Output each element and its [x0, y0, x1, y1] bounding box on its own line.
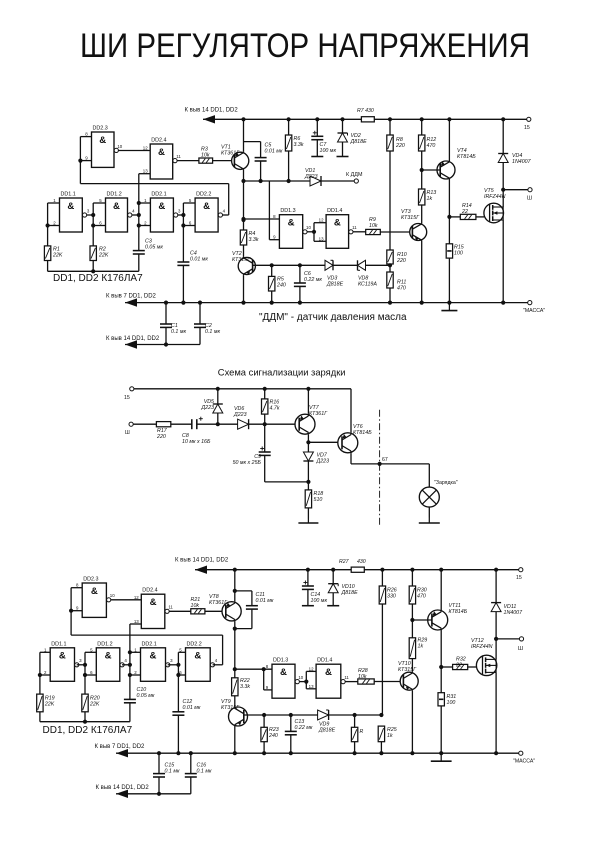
capacitor C16	[185, 774, 197, 777]
wire R21 to VT8 base	[205, 610, 226, 612]
wire VT11 base	[412, 619, 432, 621]
svg-text:Д818Е: Д818Е	[326, 281, 344, 287]
capacitor C15	[153, 774, 165, 777]
junction VT10/ground rail	[410, 751, 414, 755]
label C10 0.05 мк	[137, 687, 155, 699]
wire DD2.2 output	[223, 214, 229, 216]
label R2 22K	[98, 247, 109, 259]
svg-text:Д223: Д223	[233, 412, 247, 418]
wire C4 bottom lead	[182, 265, 184, 302]
arrow to pin 14 (bottom section)	[195, 566, 207, 574]
svg-text:Д223: Д223	[304, 174, 318, 180]
resistor R8	[387, 135, 393, 151]
svg-text:DD1.1: DD1.1	[51, 641, 66, 647]
wire VD5 top lead	[217, 389, 219, 404]
transistor VT4	[437, 161, 455, 180]
junction C13/ground rail	[289, 751, 293, 755]
svg-text:КТ814Б: КТ814Б	[457, 154, 476, 160]
gate DD2.4	[143, 138, 182, 180]
ground C14	[302, 605, 314, 607]
wire VT5 source	[502, 220, 504, 303]
wire DD2.1 pin2 (bottom)	[130, 674, 141, 676]
wire R16 top lead	[264, 389, 266, 399]
junction R23 tap	[262, 713, 266, 717]
svg-text:&: &	[150, 597, 157, 608]
junction R26/R25	[379, 713, 383, 717]
wire R13 to VT3 collector	[421, 205, 423, 223]
svg-text:510: 510	[314, 497, 323, 503]
svg-text:67: 67	[382, 457, 388, 463]
junction VD5 anode	[216, 422, 220, 426]
wire DD2.1 output (bottom)	[168, 664, 179, 666]
junction VT2/ground rail	[241, 301, 245, 305]
resistor R10	[387, 250, 393, 264]
wire R12 top lead	[421, 119, 423, 135]
gate DD2.1	[144, 192, 181, 233]
label R20 22K	[89, 696, 100, 708]
resistor R19	[37, 694, 43, 712]
wire R30 to R29	[411, 604, 413, 638]
resistor R5	[269, 276, 275, 291]
svg-text:К выв 14 DD1, DD2: К выв 14 DD1, DD2	[175, 558, 229, 564]
svg-text:0.1 мк: 0.1 мк	[205, 329, 220, 335]
capacitor C1	[160, 324, 172, 327]
junction C2/ground rail	[198, 301, 202, 305]
capacitor C7	[311, 131, 323, 140]
svg-text:10: 10	[298, 675, 303, 680]
svg-text:К выв 14 DD1, DD2: К выв 14 DD1, DD2	[185, 108, 239, 114]
wire C13 top lead	[290, 715, 292, 731]
transistor VT6	[338, 432, 358, 453]
wire R28 to VT10 base	[374, 681, 403, 683]
wire R24 bottom lead	[354, 742, 356, 754]
svg-text:&: &	[203, 201, 210, 212]
label R1 22K	[52, 247, 63, 259]
wire ground rail	[125, 302, 530, 304]
wire VT8 collector down	[234, 621, 236, 628]
wire to R14	[449, 216, 460, 218]
label C11 0.01 мк	[256, 592, 274, 604]
label R19 22K	[44, 696, 55, 708]
diode VD6	[238, 419, 249, 429]
wire VD1 to К ДДМ terminal	[321, 180, 356, 182]
svg-text:Схема сигнализации зарядки: Схема сигнализации зарядки	[218, 367, 346, 378]
label R17 220	[156, 428, 168, 440]
wire C5 bottom lead	[260, 161, 262, 181]
svg-text:&: &	[150, 651, 157, 662]
svg-text:DD2.2: DD2.2	[187, 641, 202, 647]
svg-text:0.01 мк: 0.01 мк	[265, 148, 283, 154]
svg-text:240: 240	[276, 282, 286, 288]
label R13 1k	[427, 190, 437, 202]
resistor R11	[387, 272, 393, 288]
label VD1 Д223	[304, 168, 318, 180]
wire C1 top lead	[165, 303, 167, 324]
wire VT3 emitter to ground	[421, 241, 423, 303]
junction DD2.3 inputs	[78, 159, 82, 163]
junction VT9/ground rail	[233, 751, 237, 755]
wire R31 to ground	[440, 706, 442, 753]
capacitor C14	[302, 581, 314, 590]
resistor R31	[438, 693, 444, 706]
junction R4 top	[241, 218, 245, 222]
svg-text:10: 10	[110, 593, 115, 598]
wire R22 top lead	[234, 669, 236, 678]
label R28 10k	[358, 668, 368, 680]
wire VT1 node to DD1.3 pin8	[244, 218, 280, 220]
wire R26 top lead	[381, 570, 383, 586]
wire DD1.2 input tie	[92, 203, 94, 226]
wire C14 bottom lead	[307, 589, 309, 605]
junction R26/rail	[380, 568, 384, 572]
wire DD1.3 pin9 (bottom)	[264, 689, 272, 691]
wire VT6 collector to rail	[350, 389, 352, 433]
label VD9 Д818Е	[318, 722, 336, 734]
svg-text:DD2.1: DD2.1	[151, 192, 166, 198]
junction C5/node line	[259, 179, 263, 183]
svg-text:IRFZ44N: IRFZ44N	[471, 644, 493, 650]
wire VT4 to rail	[448, 119, 450, 160]
junction VT11/rail	[439, 568, 443, 572]
wire DD1.1 input tie (bottom)	[39, 652, 41, 694]
junction VT1/rail	[241, 117, 245, 121]
wire C2 top lead	[199, 303, 201, 324]
capacitor C10	[124, 699, 136, 702]
gate DD2.2	[179, 641, 218, 681]
label C12 0.01 мк	[183, 699, 201, 711]
wire DD1.1 pin2 (bottom)	[40, 674, 50, 676]
wire VT2 emitter to ground	[243, 275, 245, 303]
junction C1/ground rail	[164, 301, 168, 305]
label VD5 Д223	[200, 399, 214, 411]
svg-text:DD1.4: DD1.4	[317, 658, 332, 664]
transistor VT9	[229, 707, 248, 727]
label R31 100	[447, 694, 457, 706]
wire DD1.3 output (bottom)	[300, 681, 307, 683]
svg-text:50 мк х 25Б: 50 мк х 25Б	[233, 460, 262, 466]
wire VD7 bottom lead	[307, 461, 309, 482]
svg-text:DD1, DD2 К176ЛА7: DD1, DD2 К176ЛА7	[43, 725, 133, 736]
label VT1 КТ361Г	[221, 145, 240, 157]
wire DD1.3 pin9 feed	[268, 181, 270, 240]
svg-text:R27: R27	[339, 559, 350, 565]
resistor R14	[460, 214, 476, 219]
svg-text:R7 430: R7 430	[357, 108, 374, 114]
svg-text:1N4007: 1N4007	[504, 610, 524, 616]
svg-text:11: 11	[344, 675, 349, 680]
wire R26 down to R25 node	[381, 604, 383, 715]
label VD2 Д818Е	[350, 133, 368, 145]
svg-text:1N4007: 1N4007	[512, 159, 532, 165]
terminal МАССА (bottom)	[519, 751, 523, 755]
label R6 3.3k	[294, 136, 304, 148]
wire DD1.2 pin5	[93, 202, 105, 204]
svg-text:"ДДМ" - датчик давления масла: "ДДМ" - датчик давления масла	[259, 312, 407, 323]
wire to VD6	[218, 423, 238, 425]
wire DD2.3 pin9 (bottom)	[71, 610, 82, 612]
junction VD10/rail	[331, 568, 335, 572]
label R9 10k	[369, 217, 378, 229]
wire C12 top lead	[177, 675, 179, 712]
junction pin9 feed (bottom)	[262, 667, 266, 671]
arrow to pin 7 of DD1, DD2	[125, 298, 137, 306]
resistor R6	[285, 135, 291, 151]
diode VD1	[310, 176, 321, 186]
wire DD1.2 output	[132, 214, 139, 216]
wire DD2.3 pin8 (bottom)	[71, 587, 82, 589]
label C4 0.01 мк	[190, 251, 208, 263]
svg-text:13: 13	[319, 236, 324, 241]
label VD7 Д223	[316, 453, 330, 465]
wire VD11 bottom lead	[495, 612, 497, 639]
wire node line	[244, 180, 311, 182]
wire node to VT7 base	[265, 423, 300, 425]
junction VT12/ground rail	[494, 751, 498, 755]
wire VD10 bottom lead	[332, 593, 334, 606]
svg-text:К выв 7 DD1, DD2: К выв 7 DD1, DD2	[95, 744, 146, 750]
arrow to pin 14 of DD1, DD2 (lower)	[125, 340, 137, 348]
svg-text:DD2.4: DD2.4	[142, 588, 157, 594]
svg-text:220: 220	[156, 434, 166, 440]
svg-text:12: 12	[134, 595, 139, 600]
wire C11 bottom lead horizontal	[235, 628, 252, 630]
svg-text:&: &	[194, 651, 201, 662]
label VT12 IRFZ44N	[471, 638, 493, 650]
svg-text:КС119А: КС119А	[358, 281, 377, 287]
svg-text:0.1 мк: 0.1 мк	[197, 768, 212, 774]
gate DD1.2	[99, 192, 135, 233]
svg-text:22: 22	[455, 662, 462, 668]
wire VT1 emitter to rail	[243, 119, 245, 151]
wire DD2.1 pin1	[139, 202, 151, 204]
diode VD4	[498, 154, 508, 163]
svg-text:10k: 10k	[358, 674, 367, 680]
svg-text:&: &	[288, 218, 295, 229]
wire VT8 emitter to rail	[234, 570, 236, 602]
resistor R26	[379, 586, 385, 604]
svg-text:0.01 мк: 0.01 мк	[183, 705, 201, 711]
wire VD2 top lead	[342, 119, 344, 133]
wire R6 top lead	[288, 119, 290, 135]
svg-text:240: 240	[268, 733, 278, 739]
wire R20 bottom lead	[84, 712, 86, 722]
svg-text:"МАССА": "МАССА"	[513, 759, 535, 765]
resistor R17	[156, 422, 170, 427]
dash-dot divider line	[379, 410, 381, 526]
junction R12/rail	[420, 117, 424, 121]
gate DD2.3	[76, 577, 115, 618]
wire DD2.4 pin13 (bottom)	[130, 623, 141, 625]
junction VT3/ground rail	[420, 301, 424, 305]
junction VD11/rail	[494, 568, 498, 572]
label R29 1k	[418, 638, 428, 650]
wire DD1.4 pin12 (bottom)	[306, 670, 316, 672]
wire C11 bottom lead	[251, 609, 253, 629]
svg-text:0.22 мк: 0.22 мк	[295, 725, 313, 731]
resistor R24	[351, 727, 357, 741]
junction VT5/ground rail	[501, 301, 505, 305]
wire R3 to VT1 base	[213, 160, 235, 162]
svg-text:Ш: Ш	[527, 196, 532, 202]
terminal МАССА	[528, 301, 532, 305]
terminal К ДДМ	[354, 179, 358, 183]
svg-text:22K: 22K	[44, 701, 55, 707]
wire DD1.2 output (bottom)	[122, 664, 130, 666]
svg-text:DD2.3: DD2.3	[83, 577, 98, 583]
wire DD2.2 input tie (bottom)	[177, 652, 179, 675]
svg-text:430: 430	[357, 559, 366, 565]
junction C12 tap (bottom)	[176, 673, 180, 677]
wire DD1.4 input tie	[313, 223, 315, 242]
resistor R27	[351, 567, 364, 572]
junction R5 tap	[270, 263, 274, 267]
wire VD4 bottom lead	[502, 163, 504, 190]
svg-text:&: &	[99, 135, 106, 146]
svg-text:0.05 мк: 0.05 мк	[145, 244, 163, 250]
wire R18 bottom lead	[307, 508, 309, 519]
junction VD4/Ш line	[501, 188, 505, 192]
svg-text:0.1 мк: 0.1 мк	[171, 329, 186, 335]
svg-text:3.3k: 3.3k	[294, 142, 304, 148]
wire Ш to R17	[133, 423, 156, 425]
svg-text:1k: 1k	[418, 643, 424, 649]
svg-text:DD1.2: DD1.2	[97, 641, 112, 647]
junction DD1.3 out	[312, 230, 316, 234]
junction R10/R11/diodes	[388, 263, 392, 267]
transistor VT1	[232, 152, 249, 170]
wire R2 top lead	[92, 226, 94, 246]
svg-text:&: &	[334, 218, 341, 229]
MOSFET VT5	[484, 203, 504, 223]
svg-text:КТ315Г: КТ315Г	[401, 215, 420, 221]
svg-text:100: 100	[454, 250, 463, 256]
junction VT11 base	[410, 618, 414, 622]
label R11 470	[397, 280, 406, 292]
junction C12/ground rail (bottom)	[176, 751, 180, 755]
label R8 220	[395, 137, 405, 149]
resistor R3	[199, 158, 213, 163]
label R4 3.3k	[249, 231, 259, 243]
svg-text:1k: 1k	[387, 733, 393, 739]
junction C15/lower rail	[157, 792, 161, 796]
junction pin2 tie (bottom)	[128, 673, 132, 677]
wire VT5 drain	[502, 190, 504, 207]
wire DD2.3 input tie	[79, 137, 81, 184]
junction DD1.3 out (bottom)	[304, 680, 308, 684]
label VD10 Д818Е	[341, 584, 359, 596]
junction R30/rail	[410, 568, 414, 572]
label R3 10k	[201, 147, 210, 159]
diode VD7	[303, 452, 313, 461]
gate DD2.2	[189, 192, 226, 233]
junction R16/C9/VT7 base	[263, 422, 267, 426]
wire feedback horizontal	[80, 183, 228, 185]
svg-text:Д818Е: Д818Е	[318, 727, 336, 733]
junction VD2/rail	[340, 117, 344, 121]
junction 67	[378, 462, 382, 466]
junction R20/tie (bottom)	[83, 720, 87, 724]
label R32 22	[455, 657, 466, 669]
wire R8 to R10	[389, 151, 391, 250]
wire R5 bottom lead	[271, 291, 273, 303]
label C15 0.1 мк	[165, 763, 180, 775]
wire DD1.2 pin6	[93, 225, 105, 227]
svg-text:330: 330	[387, 593, 396, 599]
svg-text:22K: 22K	[89, 701, 100, 707]
wire C14 top lead	[307, 570, 309, 586]
wire C12 bottom lead	[177, 715, 179, 753]
svg-text:DD1.3: DD1.3	[280, 208, 295, 214]
svg-text:100 мк: 100 мк	[311, 598, 328, 604]
wire VD11 top lead	[495, 570, 497, 603]
resistor R30	[409, 586, 415, 604]
junction C14/rail	[306, 568, 310, 572]
label R25 1k	[387, 727, 397, 739]
wire VT9 base line	[244, 714, 317, 716]
label R22 3.3k	[240, 678, 250, 690]
junction C16/ground rail	[189, 751, 193, 755]
label R5 240	[276, 277, 286, 289]
svg-text:КТ814Б: КТ814Б	[353, 430, 372, 436]
junction R15/ground rail	[447, 301, 451, 305]
wire R11 bottom lead	[389, 288, 391, 303]
wire VT10 emitter to ground	[411, 691, 413, 754]
wire R15 to ground	[448, 258, 450, 303]
wire C16 top lead	[190, 753, 192, 773]
junction R32 tap	[439, 665, 443, 669]
svg-text:К выв 7 DD1, DD2: К выв 7 DD1, DD2	[106, 294, 157, 300]
svg-text:0.1 мк: 0.1 мк	[165, 768, 180, 774]
junction VT7/rail	[306, 387, 310, 391]
wire VT2 base line	[253, 264, 325, 266]
wire C3 bottom lead	[138, 254, 140, 271]
label VT11 КТ814Б	[449, 603, 468, 615]
junction C4/ground rail	[181, 301, 185, 305]
ground VD10	[327, 605, 339, 607]
svg-text:DD1.2: DD1.2	[107, 192, 122, 198]
svg-text:0.05 мк: 0.05 мк	[137, 693, 155, 699]
svg-text:&: &	[280, 667, 287, 678]
wire oscillator bottom tie	[48, 270, 139, 272]
wire C7 bottom lead	[316, 140, 318, 157]
capacitor C11	[246, 606, 258, 609]
resistor R20	[82, 694, 88, 712]
wire VD2 bottom lead	[342, 142, 344, 157]
resistor R25	[378, 726, 384, 742]
zener diode VD10	[328, 584, 338, 593]
svg-text:"Зарядка": "Зарядка"	[434, 480, 458, 486]
svg-text:22K: 22K	[52, 252, 63, 258]
junction C6 tap	[298, 263, 302, 267]
svg-text:КТ315Г: КТ315Г	[232, 257, 251, 263]
wire VD5 bottom lead	[217, 413, 219, 424]
svg-text:220: 220	[395, 143, 405, 149]
wire C5 top lead horizontal	[244, 141, 261, 143]
wire DD2.1 input tie / pin13 feed (bottom)	[129, 624, 131, 699]
zener diode VD3	[325, 260, 333, 270]
wire R32 to VT12 gate	[468, 666, 477, 668]
ground lamp	[419, 518, 440, 524]
resistor R2	[90, 246, 96, 261]
wire R9 to VT3 base	[380, 231, 412, 233]
svg-text:КТ315Г: КТ315Г	[221, 705, 240, 711]
label VD6 Д223	[233, 406, 247, 418]
resistor R32	[453, 664, 468, 669]
label VD11 1N4007	[504, 604, 524, 616]
wire DD2.1 output	[178, 214, 184, 216]
svg-text:15: 15	[516, 575, 522, 581]
transistor VT8	[222, 601, 241, 621]
